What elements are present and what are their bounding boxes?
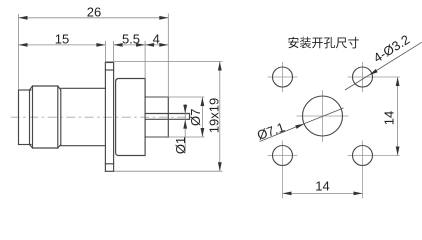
svg-text:Ø7.1: Ø7.1 xyxy=(255,119,287,142)
svg-text:15: 15 xyxy=(55,32,69,47)
svg-text:19x19: 19x19 xyxy=(206,98,221,133)
svg-text:Ø7: Ø7 xyxy=(188,109,203,126)
svg-text:安装开孔尺寸: 安装开孔尺寸 xyxy=(288,35,360,50)
svg-text:Ø1: Ø1 xyxy=(173,137,188,154)
svg-text:26: 26 xyxy=(87,5,101,20)
svg-text:4-Ø3.2: 4-Ø3.2 xyxy=(371,32,413,66)
svg-text:14: 14 xyxy=(315,178,329,193)
svg-text:5.5: 5.5 xyxy=(122,32,140,47)
svg-text:14: 14 xyxy=(381,111,396,125)
svg-text:4: 4 xyxy=(153,32,160,47)
